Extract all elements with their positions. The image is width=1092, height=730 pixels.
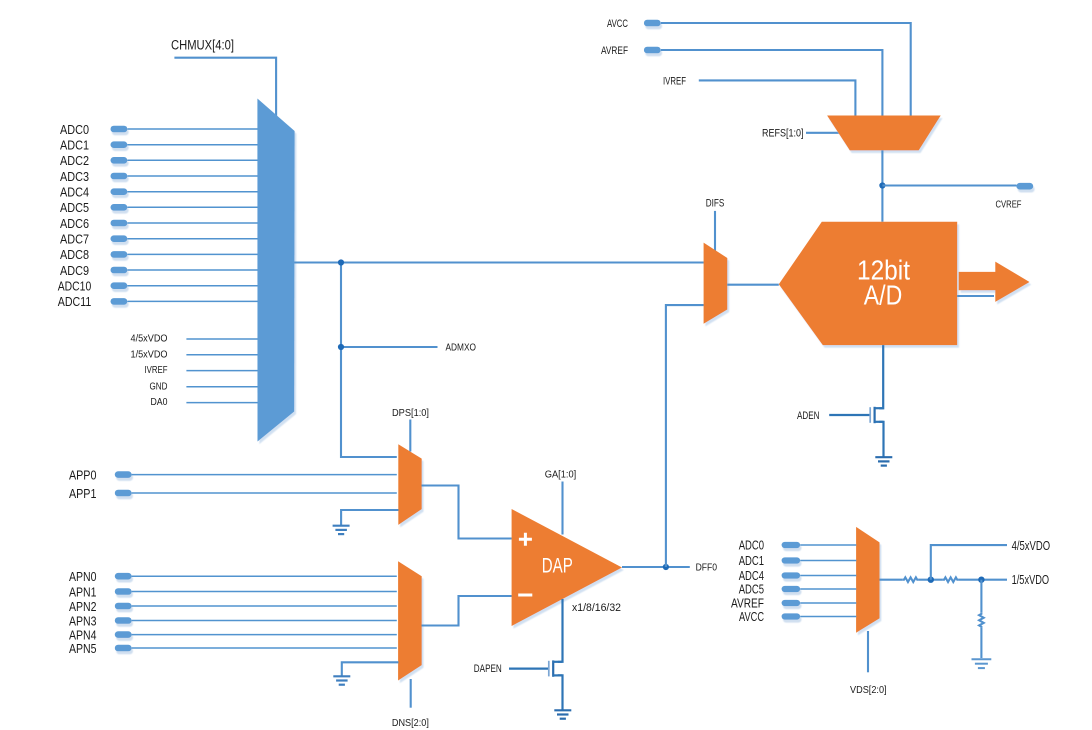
wire R1 to tap junction <box>918 579 943 581</box>
wire A/D result stub <box>957 295 994 297</box>
wire AVREF to reference mux <box>661 50 883 117</box>
pin ADC11 <box>58 294 128 309</box>
wire IVREF to channel mux <box>186 370 257 372</box>
pin ADC5 <box>60 200 127 215</box>
transistor Q1 (ADC enable) <box>870 407 883 423</box>
wire R3 to ground <box>980 628 982 658</box>
wire ADC1 to VDS mux <box>800 560 856 562</box>
wire IVREF to reference mux <box>699 80 856 116</box>
wire ADEN to transistor gate <box>829 414 870 416</box>
svg-text:ADC10: ADC10 <box>58 279 92 294</box>
wire ADC4 to VDS mux <box>800 575 856 577</box>
svg-text:CVREF: CVREF <box>996 199 1022 211</box>
svg-text:ADC0: ADC0 <box>739 538 764 553</box>
svg-text:ADEN: ADEN <box>797 410 820 422</box>
pin CVREF <box>996 183 1034 211</box>
ground below DAP enable transistor <box>554 710 571 718</box>
svg-text:AVREF: AVREF <box>601 45 628 57</box>
svg-text:CHMUX[4:0]: CHMUX[4:0] <box>171 38 234 53</box>
wire APN3 to DNS mux <box>132 620 397 622</box>
wire A/D bottom to ADEN transistor drain <box>879 345 883 408</box>
wire DPS[1:0] select <box>409 420 411 452</box>
svg-text:VDS[2:0]: VDS[2:0] <box>850 684 887 696</box>
pin ADC10 <box>58 279 128 294</box>
pin AVCC <box>607 18 661 30</box>
wire DPS mux output to DAP + input <box>422 486 512 539</box>
wire ADC8 to channel mux <box>127 253 257 255</box>
wire APN4 to DNS mux <box>132 634 397 636</box>
junction 4/5 tap <box>928 577 934 583</box>
arrow A/D digital output <box>959 262 1030 302</box>
wire AVCC to VDS mux <box>800 616 856 618</box>
svg-text:DNS[2:0]: DNS[2:0] <box>392 717 429 729</box>
svg-text:DAPEN: DAPEN <box>474 663 502 675</box>
wire ADC0 to VDS mux <box>800 544 856 546</box>
wire DA0 to channel mux <box>186 402 257 404</box>
svg-text:ADC3: ADC3 <box>60 169 89 184</box>
junction CVREF tap <box>879 182 885 188</box>
svg-text:ADC6: ADC6 <box>60 216 89 231</box>
wire AVCC to reference mux <box>661 23 911 117</box>
svg-text:APN1: APN1 <box>69 584 97 599</box>
pin APN1 <box>69 584 132 599</box>
wire DFF0 up to DIFS mux input <box>666 305 704 567</box>
wire reference mux output down to A/D <box>881 150 883 221</box>
pin ADC1 (divider input) <box>739 553 800 568</box>
resistor R2 <box>943 577 959 582</box>
ground below divider <box>972 659 992 668</box>
svg-text:DIFS: DIFS <box>706 198 725 210</box>
svg-text:ADC5: ADC5 <box>739 582 764 597</box>
svg-text:REFS[1:0]: REFS[1:0] <box>762 128 804 140</box>
pin ADC0 <box>60 122 127 137</box>
svg-text:ADMXO: ADMXO <box>446 342 477 354</box>
svg-text:APP0: APP0 <box>69 467 97 482</box>
wire APN5 to DNS mux <box>132 647 397 649</box>
wire CHMUX[4:0] select into channel mux <box>174 58 276 117</box>
wire ADC5 to channel mux <box>127 206 257 208</box>
wire APN1 to DNS mux <box>132 591 397 593</box>
pin ADC7 <box>60 231 127 246</box>
svg-text:GA[1:0]: GA[1:0] <box>545 469 577 481</box>
svg-text:ADC4: ADC4 <box>60 184 89 199</box>
svg-text:APN3: APN3 <box>69 613 97 628</box>
pin ADC0 (divider input) <box>739 538 800 553</box>
wire APN0 to DNS mux <box>132 575 397 577</box>
svg-text:DA0: DA0 <box>151 396 168 408</box>
wire DAP output to DFF0 node <box>622 566 690 568</box>
wire CVREF tap <box>882 184 1016 186</box>
wire ADC3 to channel mux <box>127 175 257 177</box>
svg-text:ADC1: ADC1 <box>60 137 89 152</box>
wire ADMXO tap <box>341 346 438 348</box>
svg-text:APN0: APN0 <box>69 569 97 584</box>
ground at DNS mux input <box>333 676 350 684</box>
wire ground input to DNS mux <box>342 662 399 675</box>
pin APN2 <box>69 599 132 614</box>
wire ADC6 to channel mux <box>127 222 257 224</box>
junction 1/5 tap <box>978 577 984 583</box>
svg-text:IVREF: IVREF <box>145 364 168 376</box>
junction bus/branch <box>338 259 344 265</box>
svg-text:4/5xVDO: 4/5xVDO <box>1012 538 1051 553</box>
mux DPS (positive input select) <box>398 444 421 525</box>
wire GND to channel mux <box>186 386 257 388</box>
wire APN2 to DNS mux <box>132 605 397 607</box>
junction ADMXO <box>338 344 344 350</box>
wire DNS[2:0] select <box>410 679 412 708</box>
svg-text:ADC0: ADC0 <box>60 122 89 137</box>
ADC core U2 (12bit A/D) <box>779 222 957 345</box>
mux DIFS (single-ended / differential select) <box>704 243 728 324</box>
svg-text:ADC8: ADC8 <box>60 247 89 262</box>
wire VDS[2:0] select <box>867 631 869 672</box>
wire DIFS mux output to A/D input <box>727 284 779 286</box>
mux channel-select (blue input multiplexer) <box>257 99 294 442</box>
wire GA[1:0] gain select into DAP <box>561 482 563 535</box>
pin APN4 <box>69 627 132 642</box>
svg-text:ADC1: ADC1 <box>739 553 764 568</box>
pin ADC1 <box>60 137 127 152</box>
svg-text:DFF0: DFF0 <box>696 561 718 573</box>
mux VDS (divider source select) <box>856 527 879 633</box>
svg-text:GND: GND <box>150 380 168 392</box>
pin ADC4 <box>60 184 127 199</box>
transistor Q2 (DAP enable) <box>549 660 562 676</box>
wire 4/5xVDO tap <box>931 545 1007 580</box>
pin ADC8 <box>60 247 127 262</box>
pin ADC5 (divider input) <box>739 582 800 597</box>
wire APP0 to DPS mux <box>132 474 397 476</box>
wire ADC1 to channel mux <box>127 144 257 146</box>
wire ADC2 to channel mux <box>127 159 257 161</box>
svg-text:ADC2: ADC2 <box>60 153 89 168</box>
pin APN5 <box>69 641 132 656</box>
svg-text:IVREF: IVREF <box>663 75 686 87</box>
pin APN3 <box>69 613 132 628</box>
wire AVREF to VDS mux <box>800 602 856 604</box>
pin ADC2 <box>60 153 127 168</box>
pin APN0 <box>69 569 132 584</box>
pin AVREF (divider input) <box>731 596 800 611</box>
pin APP0 <box>69 467 132 482</box>
resistor R3 <box>979 613 984 628</box>
svg-text:1/5xVDO: 1/5xVDO <box>1012 572 1050 587</box>
wire DNS mux output to DAP - input <box>422 596 512 626</box>
wire ADC10 to channel mux <box>127 285 257 287</box>
mux REFS (reference select, funnel) <box>827 116 941 151</box>
pin ADC4 (divider input) <box>739 568 800 583</box>
resistor R1 <box>903 577 919 582</box>
wire transistor source to ground <box>879 422 883 457</box>
svg-text:DAP: DAP <box>542 555 573 578</box>
svg-text:ADC5: ADC5 <box>60 200 89 215</box>
pin AVCC (divider input) <box>739 609 800 624</box>
wire ADC5 to VDS mux <box>800 588 856 590</box>
wire 1/5xVDO to channel mux <box>186 354 257 356</box>
wire APP1 to DPS mux <box>132 492 397 494</box>
svg-text:APN2: APN2 <box>69 599 97 614</box>
svg-text:x1/8/16/32: x1/8/16/32 <box>572 602 621 614</box>
wire transistor source to ground <box>558 675 563 709</box>
svg-text:DPS[1:0]: DPS[1:0] <box>392 407 429 419</box>
pin ADC9 <box>60 263 127 278</box>
junction DFF0 <box>663 564 669 570</box>
pin AVREF <box>601 45 661 57</box>
svg-text:AVCC: AVCC <box>739 609 764 624</box>
svg-text:ADC7: ADC7 <box>60 231 89 246</box>
pin ADC3 <box>60 169 127 184</box>
wire ADC9 to channel mux <box>127 269 257 271</box>
wire DAP bottom to transistor drain <box>558 599 563 662</box>
svg-text:ADC11: ADC11 <box>58 294 92 309</box>
wire 4/5xVDO to channel mux <box>186 338 257 340</box>
wire ground input to DPS mux <box>341 510 398 525</box>
wire 1/5 tap down to R3 <box>980 580 982 613</box>
wire ADC0 to channel mux <box>127 128 257 130</box>
wire DIFS select <box>714 211 716 252</box>
wire VDS mux output to divider <box>880 579 903 581</box>
svg-text:APP1: APP1 <box>69 486 97 501</box>
wire REFS[1:0] select <box>806 132 841 134</box>
op-amp DAP (programmable gain amplifier) <box>512 509 622 626</box>
svg-text:1/5xVDO: 1/5xVDO <box>131 348 168 360</box>
svg-text:ADC9: ADC9 <box>60 263 89 278</box>
wire DAPEN to transistor gate <box>509 667 549 669</box>
svg-text:4/5xVDO: 4/5xVDO <box>131 333 168 345</box>
wire ADC4 to channel mux <box>127 191 257 193</box>
wire bus branch down to ADMXO and DPS mux <box>341 263 397 458</box>
wire R2 to 1/5 output <box>958 579 1007 581</box>
wire ADC11 to channel mux <box>127 300 257 302</box>
pin ADC6 <box>60 216 127 231</box>
ground at DPS mux input <box>333 526 350 534</box>
wire channel mux output bus to DIFS mux <box>294 261 704 263</box>
svg-text:AVCC: AVCC <box>607 18 628 30</box>
svg-text:A/D: A/D <box>864 279 903 310</box>
wire ADC7 to channel mux <box>127 238 257 240</box>
mux DNS (negative input select) <box>398 561 422 680</box>
pin APP1 <box>69 486 132 501</box>
svg-text:APN5: APN5 <box>69 641 97 656</box>
ground below ADC enable transistor <box>875 457 892 465</box>
